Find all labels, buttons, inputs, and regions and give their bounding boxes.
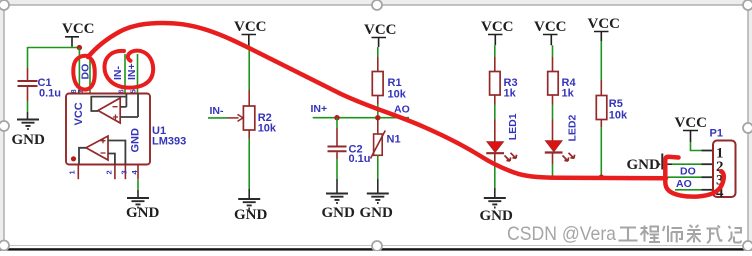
wire IN- net stub (U1 pin 6) — [124, 54, 126, 94]
power VCC (R3 column) — [481, 19, 514, 45]
svg-text:GND: GND — [322, 205, 356, 221]
op-amp U1 comparator A (top) — [91, 94, 138, 124]
annotation big curve — [88, 23, 666, 178]
svg-text:GND: GND — [129, 128, 141, 153]
wire IN+/AO horizontal net — [313, 117, 409, 119]
svg-text:IN-: IN- — [112, 66, 124, 81]
pin number 8 — [69, 89, 78, 93]
node junction C2 — [334, 115, 339, 120]
svg-text:1: 1 — [68, 170, 77, 174]
potentiometer R2 — [243, 106, 277, 135]
svg-text:N1: N1 — [387, 134, 401, 146]
svg-text:10k: 10k — [609, 110, 628, 122]
svg-text:VCC: VCC — [364, 22, 397, 38]
svg-text:0.1u: 0.1u — [39, 88, 61, 100]
svg-text:VCC: VCC — [534, 19, 567, 35]
svg-text:IN+: IN+ — [126, 63, 138, 80]
svg-text:10k: 10k — [258, 123, 277, 135]
svg-text:R5: R5 — [609, 98, 623, 110]
watermark CJK 师 — [663, 226, 682, 243]
wire N1 bottom to ground — [377, 155, 379, 193]
op-amp U1 body — [66, 94, 186, 165]
svg-text:LED2: LED2 — [566, 115, 578, 142]
svg-text:10k: 10k — [388, 89, 407, 101]
wire R3 to LED1 — [494, 95, 496, 142]
watermark CJK 养 — [687, 225, 701, 243]
svg-text:3: 3 — [120, 170, 129, 174]
node AO label — [394, 104, 410, 116]
svg-text:DO: DO — [680, 166, 696, 178]
ground GND (LED1) — [480, 198, 514, 224]
capacitor C2 — [328, 144, 371, 166]
svg-text:LED1: LED1 — [507, 113, 519, 140]
resistor R1 — [372, 72, 406, 101]
wire VCC to R3 — [494, 45, 496, 71]
wire N1 top lead — [377, 118, 379, 134]
node junction R1/N1 — [375, 115, 380, 120]
watermark CJK 工 — [619, 228, 638, 241]
connector P1 — [710, 128, 736, 202]
pin 4 stub / wire to ground — [130, 165, 139, 198]
wire R1 bottom — [377, 96, 379, 118]
node DO label — [79, 64, 91, 80]
svg-text:R1: R1 — [388, 77, 402, 89]
power VCC (C1/U1 column) — [62, 21, 95, 47]
svg-text:VCC: VCC — [481, 19, 514, 35]
wire VCC to R2 — [248, 45, 250, 106]
power VCC (R2 column) — [234, 19, 267, 45]
svg-text:VCC: VCC — [234, 19, 267, 35]
wire C1 top lead — [27, 47, 29, 80]
ground GND (N1) — [360, 194, 394, 222]
wire R4 to LED2 — [552, 95, 554, 141]
node IN- label (R2) — [210, 105, 225, 117]
op-amp U1 comparator B (bottom) — [71, 136, 126, 165]
svg-text:P1: P1 — [710, 128, 723, 140]
wire C2 top lead — [336, 118, 338, 146]
watermark CJK 记 — [729, 226, 742, 243]
wire VCC to P1 pin 1 — [691, 142, 714, 151]
svg-text:1k: 1k — [504, 88, 517, 100]
svg-text:IN-: IN- — [210, 105, 225, 117]
ground GND (U1) — [126, 198, 160, 221]
wire C2 bottom to ground — [336, 152, 338, 193]
wire DO net horizontal to P1 pin 3 — [553, 176, 714, 178]
svg-text:VCC: VCC — [588, 16, 621, 32]
ground GND (R2) — [234, 199, 268, 223]
watermark CSDN — [507, 223, 616, 245]
wire VCC to C1 (horizontal) — [28, 47, 80, 49]
node IN+ label (top) — [126, 63, 138, 80]
resistor R3 — [490, 72, 518, 100]
svg-text:GND: GND — [126, 205, 160, 221]
svg-text:CSDN @Vera: CSDN @Vera — [507, 223, 616, 245]
watermark CJK 程 — [641, 226, 661, 243]
wire C1 bottom lead — [27, 87, 29, 119]
svg-text:GND: GND — [12, 132, 46, 148]
svg-text:LM393: LM393 — [152, 136, 186, 148]
pin 2 stub — [104, 165, 115, 180]
annotation circle around DO — [73, 56, 94, 90]
resistor R4 — [548, 72, 577, 100]
svg-text:VCC: VCC — [62, 21, 95, 37]
ground GND (C1) — [12, 120, 46, 149]
svg-text:GND: GND — [627, 157, 661, 173]
node junction R5/DO — [599, 175, 604, 180]
node IN+ label — [311, 103, 328, 115]
node DO label (P1) — [680, 166, 696, 178]
ground GND (C2) — [322, 194, 356, 222]
pin 3 stub — [120, 165, 129, 180]
wire VCC to R4 — [552, 45, 554, 71]
annotation circle around IN-/IN+ — [104, 51, 153, 88]
svg-text:GND: GND — [480, 208, 514, 224]
svg-text:1k: 1k — [562, 88, 575, 100]
svg-text:VCC: VCC — [675, 115, 708, 131]
pin number 5 — [129, 89, 138, 93]
pin number 7 — [76, 89, 85, 93]
node AO label (P1) — [676, 178, 692, 190]
power VCC (P1 column) — [675, 115, 708, 142]
svg-text:DO: DO — [79, 64, 91, 80]
pin number 6 — [116, 89, 125, 93]
svg-text:2: 2 — [104, 170, 113, 174]
svg-text:VCC: VCC — [73, 102, 85, 125]
node IN- label (top) — [112, 66, 124, 81]
wire R2 bottom to ground — [248, 130, 250, 199]
wire DO net stub (U1 pin 7) — [89, 54, 91, 94]
LED LED2 — [545, 115, 579, 162]
wire GND to P1 pin 2 — [672, 163, 713, 165]
wire LED1 to ground — [494, 154, 496, 198]
wire VCC to R5 — [600, 41, 602, 96]
svg-text:AO: AO — [676, 178, 692, 190]
svg-text:0.1u: 0.1u — [349, 153, 371, 165]
resistor R5 — [596, 96, 628, 122]
pin 1 stub — [68, 165, 79, 180]
svg-text:IN+: IN+ — [311, 103, 328, 115]
wire IN+ net stub (U1 pin 5) — [137, 54, 139, 94]
LED LED1 — [486, 113, 519, 161]
wire VCC to R1 — [377, 47, 379, 72]
wire AO to P1 pin 4 — [675, 189, 713, 191]
wire R5 to DO net — [600, 120, 602, 178]
wire LED2 to DO net — [552, 153, 554, 177]
power VCC (R5 column) — [588, 16, 621, 41]
wire VCC to U1 pin 8 — [78, 48, 80, 94]
power VCC (R1 column) — [364, 22, 397, 47]
watermark CJK 成 — [707, 226, 723, 244]
wire IN- to R2 wiper — [208, 114, 243, 121]
svg-text:GND: GND — [234, 207, 268, 223]
node VCC junction — [77, 45, 82, 50]
capacitor C1 — [18, 77, 62, 100]
power VCC (R4 column) — [534, 19, 567, 45]
svg-text:GND: GND — [360, 205, 394, 221]
ground GND (P1 pin 2) — [627, 154, 673, 174]
annotation loop around P1 DO/AO — [665, 157, 724, 197]
thermistor N1 — [371, 131, 401, 159]
